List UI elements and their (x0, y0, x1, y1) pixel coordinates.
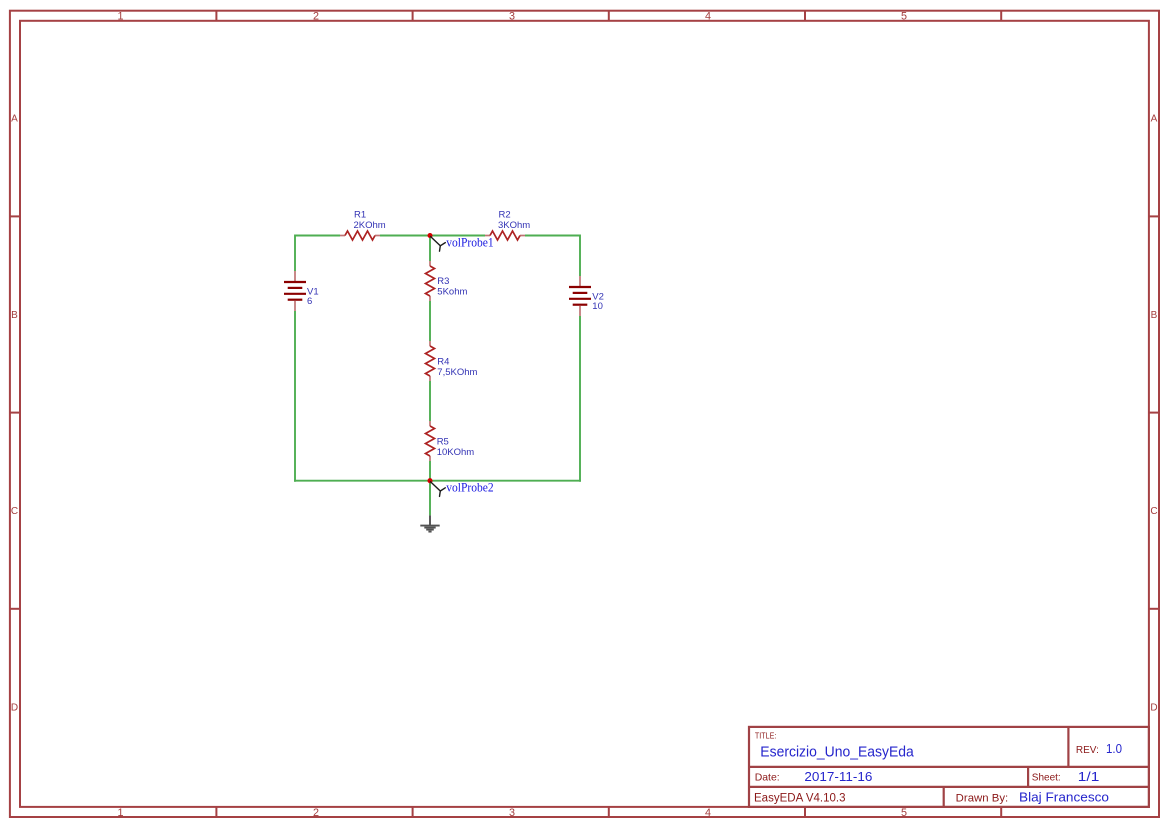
svg-text:Blaj Francesco: Blaj Francesco (1019, 790, 1109, 805)
svg-text:10: 10 (592, 301, 603, 312)
svg-text:1: 1 (117, 10, 123, 22)
svg-text:Drawn By:: Drawn By: (956, 792, 1009, 804)
svg-text:volProbe1: volProbe1 (446, 235, 494, 249)
svg-text:2: 2 (313, 10, 319, 22)
svg-text:TITLE:: TITLE: (755, 731, 777, 741)
svg-text:3: 3 (509, 807, 515, 819)
svg-text:1/1: 1/1 (1078, 769, 1100, 784)
svg-text:D: D (11, 702, 18, 713)
svg-text:R2: R2 (499, 210, 511, 221)
svg-text:R4: R4 (437, 356, 449, 367)
svg-text:B: B (1151, 310, 1158, 321)
svg-text:3KOhm: 3KOhm (498, 220, 530, 231)
svg-text:4: 4 (705, 807, 711, 819)
svg-text:5: 5 (901, 10, 907, 22)
svg-text:2KOhm: 2KOhm (354, 220, 386, 231)
svg-text:R1: R1 (354, 210, 366, 221)
svg-text:1: 1 (117, 807, 123, 819)
svg-text:D: D (1150, 702, 1157, 713)
svg-text:4: 4 (705, 10, 711, 22)
svg-text:3: 3 (509, 10, 515, 22)
svg-text:Sheet:: Sheet: (1032, 773, 1061, 784)
svg-text:C: C (1150, 506, 1157, 517)
svg-text:Esercizio_Uno_EasyEda: Esercizio_Uno_EasyEda (760, 744, 914, 760)
svg-text:C: C (11, 506, 18, 517)
svg-text:EasyEDA V4.10.3: EasyEDA V4.10.3 (754, 792, 846, 804)
svg-text:5Kohm: 5Kohm (437, 286, 467, 297)
svg-text:REV:: REV: (1076, 744, 1099, 756)
svg-text:6: 6 (307, 296, 312, 307)
svg-text:7,5KOhm: 7,5KOhm (437, 367, 477, 378)
svg-text:A: A (1151, 114, 1158, 125)
svg-text:volProbe2: volProbe2 (446, 481, 494, 495)
svg-text:Date:: Date: (755, 772, 780, 784)
svg-text:1.0: 1.0 (1106, 742, 1122, 756)
svg-text:2: 2 (313, 807, 319, 819)
svg-text:2017-11-16: 2017-11-16 (804, 769, 872, 784)
svg-text:10KOhm: 10KOhm (437, 447, 475, 458)
svg-text:R5: R5 (437, 436, 449, 447)
svg-text:A: A (11, 114, 18, 125)
svg-text:5: 5 (901, 807, 907, 819)
svg-text:B: B (11, 310, 18, 321)
